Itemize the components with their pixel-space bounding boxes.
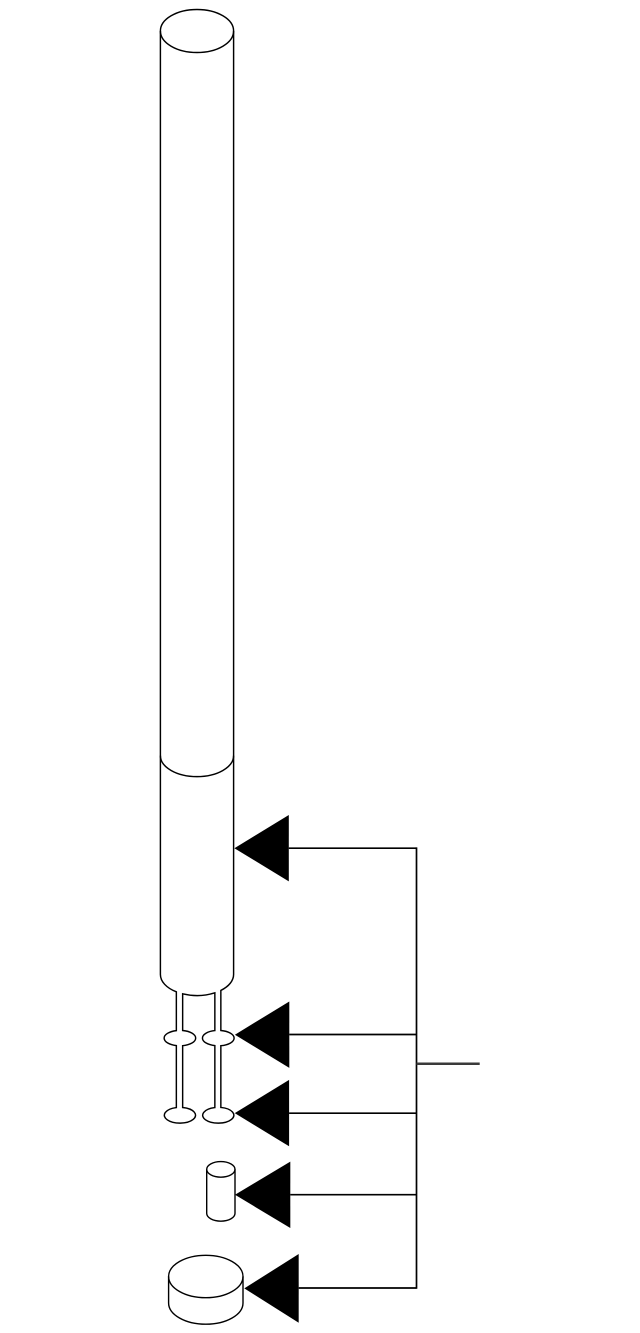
leader line 1 [289, 847, 417, 849]
arrow 5 [244, 1254, 298, 1323]
small cylinder body [207, 1162, 235, 1222]
arrow 3 [235, 1080, 289, 1146]
tube section separator arc [160, 756, 233, 777]
tube body with legs (union outline) [160, 9, 234, 1123]
disc top rim [169, 1277, 243, 1298]
leader line 5 [299, 1287, 417, 1289]
disc body [169, 1255, 243, 1324]
right stub line [417, 1062, 480, 1065]
leader line 2 [289, 1034, 416, 1036]
leader line 3 [289, 1112, 416, 1114]
tube top ellipse front rim [160, 31, 233, 53]
arrow 2 [235, 1002, 289, 1068]
small cylinder top rim [207, 1169, 235, 1177]
arrow 4 [235, 1162, 290, 1228]
arrow 1 [234, 815, 288, 881]
vertical bus line [416, 847, 418, 1288]
leader line 4 [290, 1194, 416, 1196]
